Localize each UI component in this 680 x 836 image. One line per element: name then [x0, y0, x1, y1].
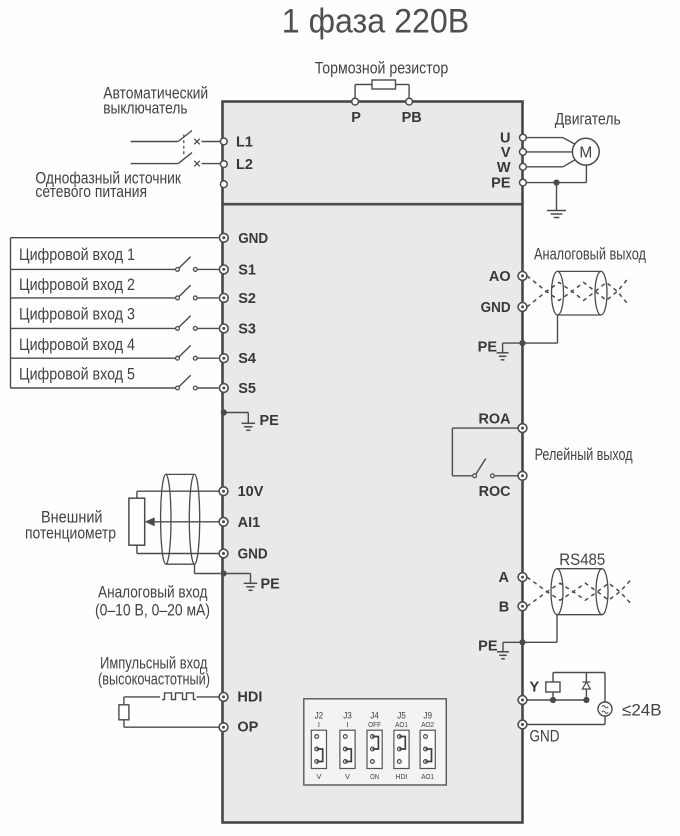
svg-text:S1: S1 — [238, 262, 256, 278]
svg-text:S5: S5 — [238, 381, 256, 397]
svg-text:PE: PE — [491, 176, 511, 192]
svg-text:OP: OP — [237, 720, 258, 736]
svg-text:потенциометр: потенциометр — [25, 524, 116, 543]
svg-text:1 фаза 220В: 1 фаза 220В — [282, 3, 470, 41]
svg-text:Цифровой вход 5: Цифровой вход 5 — [19, 365, 135, 384]
svg-text:AO: AO — [489, 269, 511, 285]
svg-text:GND: GND — [530, 728, 560, 746]
svg-text:Цифровой вход 2: Цифровой вход 2 — [19, 275, 135, 294]
svg-text:≤24В: ≤24В — [622, 701, 662, 720]
svg-text:A: A — [499, 570, 510, 586]
svg-text:Цифровой вход 4: Цифровой вход 4 — [19, 335, 135, 354]
svg-text:GND: GND — [238, 231, 268, 247]
svg-text:P: P — [351, 110, 361, 126]
svg-text:B: B — [499, 599, 509, 615]
svg-text:V: V — [501, 145, 511, 161]
svg-text:PB: PB — [402, 110, 422, 126]
svg-text:10V: 10V — [238, 484, 264, 500]
svg-text:ON: ON — [370, 772, 379, 781]
svg-text:OFF: OFF — [368, 720, 381, 729]
svg-text:AO1: AO1 — [395, 720, 408, 729]
svg-text:S3: S3 — [238, 321, 256, 337]
svg-text:Цифровой вход 3: Цифровой вход 3 — [19, 305, 135, 324]
svg-text:GND: GND — [481, 300, 511, 316]
svg-text:M: M — [579, 144, 592, 161]
svg-text:V: V — [345, 772, 350, 781]
svg-text:PE: PE — [261, 577, 281, 593]
svg-text:сетевого питания: сетевого питания — [35, 182, 147, 201]
svg-text:(0–10 В, 0–20 мА): (0–10 В, 0–20 мА) — [95, 601, 210, 620]
svg-text:выключатель: выключатель — [103, 98, 187, 117]
svg-text:L2: L2 — [236, 157, 253, 173]
svg-text:Релейный выход: Релейный выход — [535, 445, 633, 464]
svg-text:PE: PE — [260, 413, 280, 429]
svg-text:AI1: AI1 — [238, 515, 261, 531]
svg-text:RS485: RS485 — [559, 551, 605, 569]
svg-text:ROC: ROC — [479, 484, 512, 500]
svg-text:Аналоговый вход: Аналоговый вход — [98, 583, 208, 602]
svg-text:S2: S2 — [238, 291, 256, 307]
svg-text:W: W — [497, 160, 511, 176]
svg-text:Тормозной резистор: Тормозной резистор — [315, 59, 449, 78]
svg-text:V: V — [316, 772, 321, 781]
svg-text:I: I — [346, 720, 348, 729]
svg-text:HDI: HDI — [396, 772, 408, 781]
svg-text:Аналоговый выход: Аналоговый выход — [534, 244, 646, 263]
svg-text:Двигатель: Двигатель — [555, 110, 621, 129]
svg-text:I: I — [318, 720, 320, 729]
svg-text:ROA: ROA — [479, 412, 512, 428]
svg-text:AO1: AO1 — [421, 772, 434, 781]
svg-text:HDI: HDI — [237, 689, 262, 705]
svg-text:Цифровой вход 1: Цифровой вход 1 — [19, 245, 135, 264]
svg-text:GND: GND — [238, 547, 268, 563]
svg-text:Y: Y — [530, 680, 540, 696]
svg-text:(высокочастотный): (высокочастотный) — [98, 670, 210, 689]
svg-text:L1: L1 — [236, 134, 253, 150]
svg-text:PE: PE — [478, 340, 498, 356]
svg-text:S4: S4 — [238, 351, 256, 367]
svg-text:AO2: AO2 — [421, 720, 434, 729]
svg-text:PE: PE — [478, 639, 498, 655]
